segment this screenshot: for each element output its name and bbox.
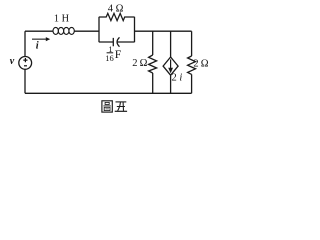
glyph tu inner middle line (103, 105, 110, 107)
inductor L1 1 H (53, 27, 74, 34)
glyph wu right vertical (122, 102, 124, 111)
glyph wu middle bar (117, 106, 125, 108)
glyph wu bottom bar (115, 110, 127, 112)
RC block left bar (98, 17, 100, 42)
RC block right bar (134, 17, 136, 42)
wire left vertical above source (24, 31, 26, 56)
wire RC block to right (135, 30, 192, 32)
glyph wu (five) top bar (116, 101, 127, 103)
wire inductor to RC block (74, 30, 99, 32)
capacitor C 1/16F left lead and plate (99, 38, 113, 46)
svg-text:v: v (10, 56, 15, 67)
resistor R1 2ohm zigzag (149, 55, 157, 73)
glyph wu left diagonal (118, 102, 121, 111)
svg-text:4 Ω: 4 Ω (108, 3, 124, 14)
svg-text:16: 16 (105, 53, 114, 63)
dependent current source diamond 2i (163, 57, 178, 75)
svg-text:F: F (115, 47, 122, 61)
capacitor C curved plate (117, 37, 119, 46)
caption: figure label drawn as strokes (102, 101, 127, 112)
svg-text:2 Ω: 2 Ω (132, 58, 147, 69)
wire left vertical below source (24, 69, 26, 93)
svg-text:1 H: 1 H (54, 13, 70, 24)
dependent source leads (170, 31, 172, 93)
glyph tu inner bottom detail (105, 108, 109, 110)
glyph tu (figure) outer box (102, 101, 112, 112)
glyph tu inner top small box (105, 102, 109, 104)
resistor R2 2ohm zigzag (188, 56, 196, 74)
resistor R2 2ohm branch vertical leads (191, 31, 193, 93)
capacitor right lead (117, 41, 134, 43)
svg-text:i: i (36, 41, 39, 52)
svg-text:2 i: 2 i (172, 73, 183, 84)
wire top-left horizontal (25, 30, 53, 32)
wire bottom (25, 92, 192, 94)
resistor R 4ohm zigzag top branch (99, 13, 135, 20)
fraction bar (107, 52, 114, 54)
svg-text:2 Ω: 2 Ω (193, 59, 208, 70)
current source arrow (down) (168, 59, 173, 73)
minus sign in source (24, 65, 27, 67)
plus sign in source (23, 58, 27, 66)
current arrow i on top-left wire (32, 37, 50, 41)
glyph tu inner bottom box (104, 107, 110, 110)
resistor R1 2ohm branch vertical leads (152, 31, 154, 93)
voltage source V circle (19, 57, 32, 70)
